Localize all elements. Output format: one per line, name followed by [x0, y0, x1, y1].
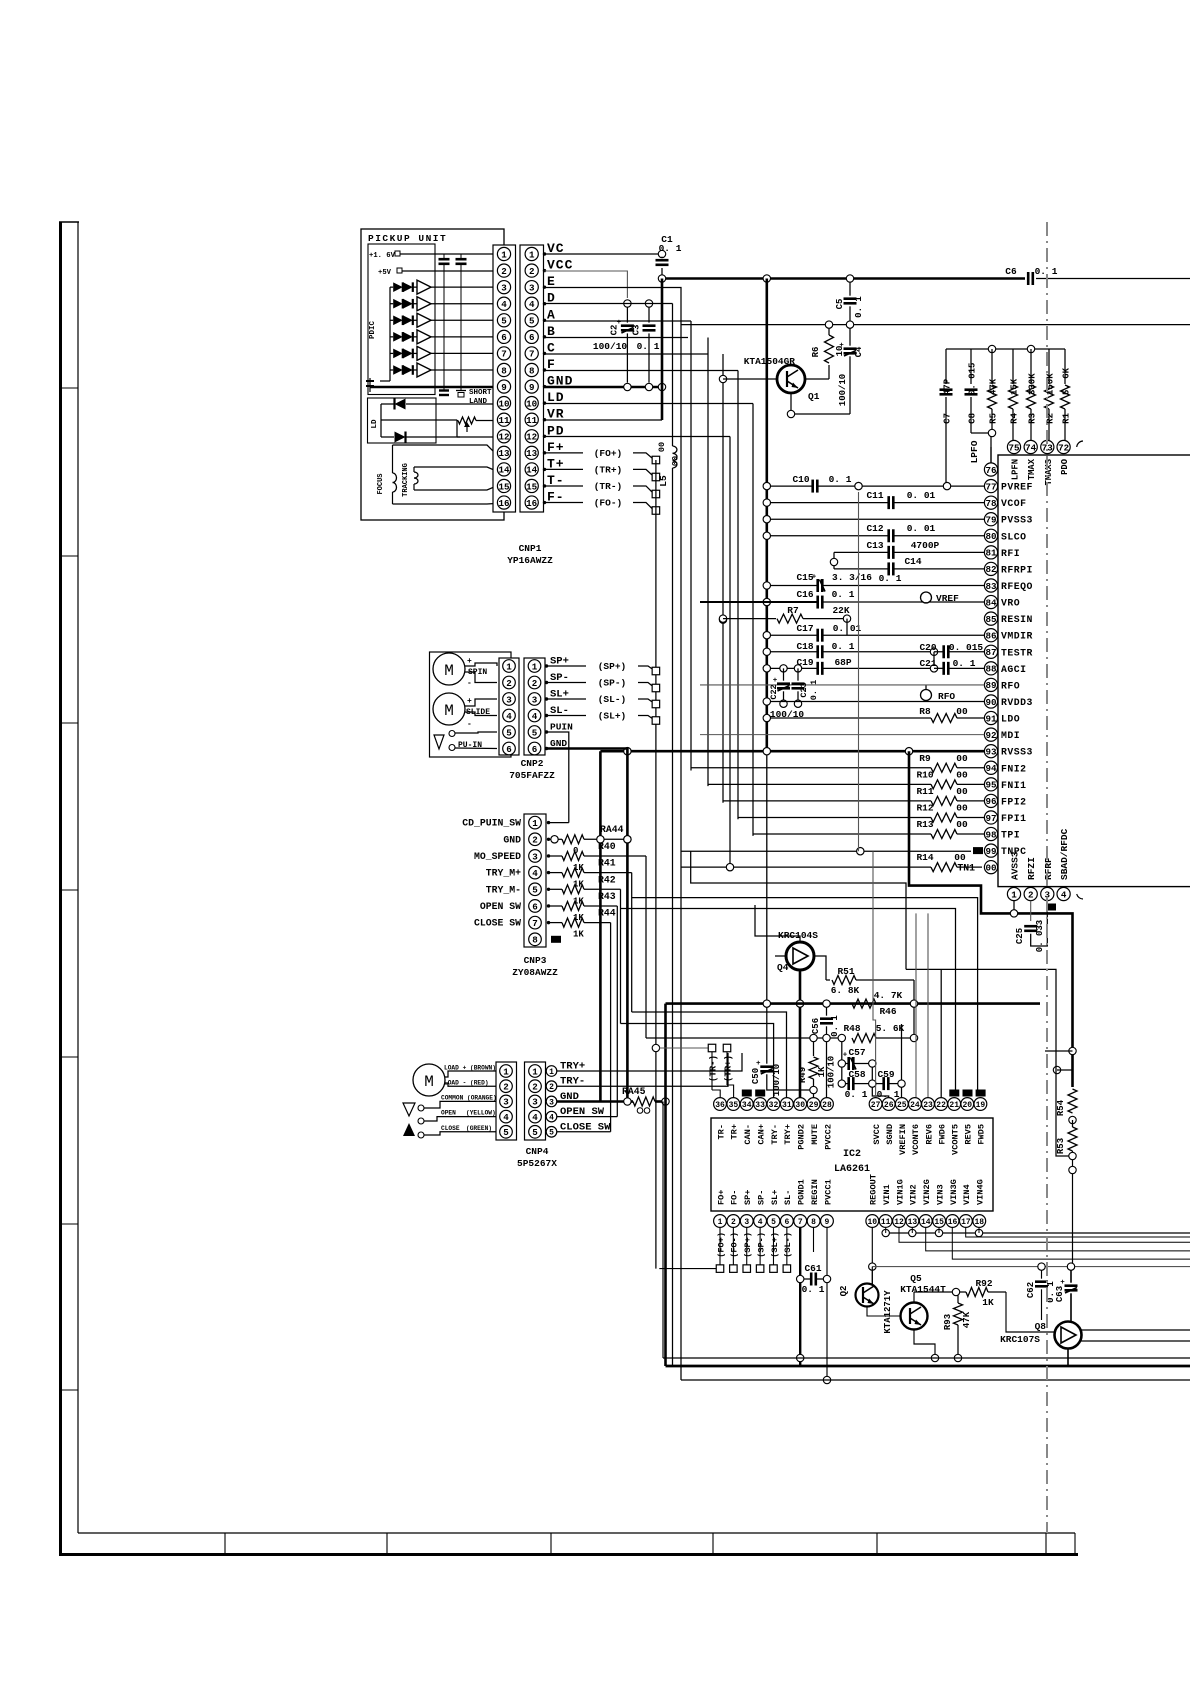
- svg-text:R1: R1: [1062, 412, 1072, 423]
- svg-text:98: 98: [985, 829, 997, 840]
- svg-text:+: +: [1060, 1279, 1065, 1287]
- svg-text:R49: R49: [798, 1067, 808, 1083]
- svg-text:LAND: LAND: [469, 398, 488, 406]
- resistor R14 row100: [681, 866, 931, 868]
- wire vin rail3: [926, 1228, 1190, 1251]
- wire TRY+ row: [557, 1053, 742, 1071]
- resistors R9-R13: [691, 767, 931, 769]
- SHORT LAND pads: [439, 389, 449, 391]
- svg-text:0. 1: 0. 1: [830, 1015, 840, 1037]
- svg-text:PVSS3: PVSS3: [1001, 515, 1033, 526]
- svg-text:3: 3: [532, 1097, 538, 1108]
- wire R92 to Q8: [1006, 1292, 1054, 1332]
- svg-text:7: 7: [529, 349, 535, 360]
- svg-text:0. 1: 0. 1: [845, 1089, 868, 1100]
- capacitor C7: [945, 349, 947, 384]
- svg-text:L5: L5: [658, 475, 669, 487]
- svg-text:RFO: RFO: [1001, 680, 1020, 691]
- photodiode array PDIC: [393, 282, 403, 292]
- svg-text:4: 4: [532, 1112, 538, 1123]
- bottom rail thin: [663, 1357, 1190, 1359]
- svg-text:FNI2: FNI2: [1001, 763, 1027, 774]
- svg-text:TPI: TPI: [1001, 830, 1020, 841]
- svg-text:FNI1: FNI1: [1001, 780, 1027, 791]
- svg-text:C11: C11: [866, 490, 883, 501]
- svg-text:(SL+): (SL+): [598, 711, 627, 722]
- svg-text:+: +: [773, 677, 778, 685]
- wire R40 to R48 row: [646, 1037, 810, 1039]
- svg-text:CNP2: CNP2: [521, 758, 544, 769]
- svg-text:R46: R46: [879, 1006, 896, 1017]
- svg-text:14: 14: [921, 1218, 931, 1227]
- svg-text:1: 1: [532, 818, 538, 829]
- svg-text:SGND: SGND: [885, 1124, 895, 1145]
- svg-text:11: 11: [498, 415, 510, 426]
- svg-text:TRY-: TRY-: [770, 1124, 780, 1145]
- svg-text:CLOSE: CLOSE: [441, 1125, 460, 1132]
- border frame left ruler: [59, 222, 62, 1556]
- svg-text:9: 9: [501, 382, 507, 393]
- wire Q1 base: [723, 378, 777, 380]
- IC1 top pins: [1007, 440, 1020, 453]
- svg-text:GND: GND: [503, 834, 521, 845]
- svg-text:6: 6: [501, 332, 507, 343]
- svg-text:5P5267X: 5P5267X: [517, 1158, 557, 1169]
- thick gnd staircase: [909, 751, 1073, 1087]
- svg-text:1: 1: [503, 1066, 509, 1077]
- svg-text:PVCC1: PVCC1: [823, 1179, 833, 1205]
- wire bundle B vertical: [707, 338, 709, 787]
- resistor R53: [1072, 1120, 1074, 1127]
- svg-text:FWD5: FWD5: [977, 1124, 987, 1145]
- svg-text:LA6261: LA6261: [834, 1164, 870, 1175]
- svg-text:13: 13: [526, 448, 538, 459]
- svg-text:4. 7K: 4. 7K: [874, 990, 903, 1001]
- svg-text:ZY08AWZZ: ZY08AWZZ: [512, 967, 558, 978]
- svg-text:97: 97: [985, 813, 996, 824]
- thick supply row: [666, 1002, 1041, 1005]
- RFO terminal: [921, 690, 932, 701]
- svg-text:13: 13: [908, 1218, 918, 1227]
- resistor R8 row91: [763, 714, 770, 721]
- wire q5 collector: [913, 1292, 915, 1303]
- svg-text:+: +: [467, 697, 472, 706]
- svg-text:SL-: SL-: [783, 1190, 793, 1205]
- svg-text:9: 9: [529, 382, 535, 393]
- wire bias row: [825, 321, 832, 328]
- svg-text:+: +: [756, 1060, 761, 1068]
- capacitor C19 row88: [763, 665, 770, 672]
- border frame bottom ruler: [78, 1532, 1075, 1534]
- wire GND row: [545, 386, 663, 388]
- svg-text:5: 5: [503, 1127, 509, 1138]
- tracking coil: [413, 467, 415, 472]
- resistor R49: [813, 1041, 815, 1056]
- svg-text:8: 8: [501, 365, 507, 376]
- wire VR net: [545, 419, 663, 421]
- svg-text:+1. 6V: +1. 6V: [369, 252, 396, 260]
- svg-text:16: 16: [948, 1218, 958, 1227]
- svg-text:CD_PUIN_SW: CD_PUIN_SW: [462, 818, 521, 829]
- svg-text:79: 79: [985, 515, 996, 526]
- svg-text:TN1: TN1: [957, 863, 975, 874]
- svg-text:15: 15: [498, 481, 510, 492]
- svg-text:3: 3: [549, 1098, 554, 1107]
- svg-text:LPFO: LPFO: [969, 440, 980, 463]
- svg-text:3: 3: [506, 694, 512, 705]
- wire vin rail1: [886, 1232, 1190, 1234]
- svg-text:0. 1: 0. 1: [829, 474, 852, 485]
- svg-text:3: 3: [503, 1097, 509, 1108]
- svg-text:KTA1544T: KTA1544T: [900, 1284, 946, 1295]
- svg-text:C15: C15: [796, 572, 813, 583]
- svg-text:(GREEN): (GREEN): [466, 1125, 492, 1132]
- svg-text:1: 1: [532, 661, 538, 672]
- svg-text:85: 85: [985, 614, 997, 625]
- svg-text:TR+: TR+: [730, 1124, 740, 1139]
- wire bundle F vertical: [737, 371, 739, 820]
- svg-text:3: 3: [744, 1218, 749, 1227]
- svg-text:R5: R5: [989, 413, 999, 424]
- svg-text:0. 1: 0. 1: [832, 641, 855, 652]
- svg-text:23: 23: [923, 1101, 933, 1110]
- svg-text:94: 94: [985, 763, 997, 774]
- svg-text:PUIN: PUIN: [550, 722, 573, 733]
- wire VCC: [545, 271, 628, 298]
- svg-text:7: 7: [532, 918, 538, 929]
- svg-text:00: 00: [956, 819, 968, 830]
- svg-text:MUTE: MUTE: [810, 1124, 820, 1145]
- svg-text:5: 5: [532, 1127, 538, 1138]
- svg-text:REV5: REV5: [964, 1124, 974, 1145]
- svg-text:C17: C17: [796, 623, 813, 634]
- capacitor C15 row83: [763, 582, 770, 589]
- IC2 pin tags top: [742, 1090, 752, 1097]
- svg-text:C2: C2: [610, 325, 620, 336]
- svg-text:88: 88: [985, 664, 997, 675]
- svg-text:FO-: FO-: [730, 1190, 740, 1205]
- svg-text:(TR+): (TR+): [724, 1055, 734, 1082]
- svg-text:Q4: Q4: [777, 962, 789, 973]
- svg-text:5: 5: [506, 727, 512, 738]
- svg-text:R51: R51: [837, 966, 854, 977]
- wire LPFO: [971, 432, 989, 434]
- svg-text:68P: 68P: [834, 657, 851, 668]
- laser diode LD1: [395, 399, 406, 410]
- svg-text:C25: C25: [1015, 928, 1025, 944]
- svg-text:5. 6K: 5. 6K: [876, 1023, 905, 1034]
- svg-text:3: 3: [529, 282, 535, 293]
- wire net row99: [681, 850, 971, 852]
- svg-text:RESIN: RESIN: [1001, 614, 1033, 625]
- thick rvss3 left: [599, 751, 602, 1101]
- svg-text:6: 6: [529, 332, 535, 343]
- svg-text:18: 18: [974, 1218, 984, 1227]
- svg-text:R10: R10: [916, 769, 933, 780]
- wire q8 stubs: [1081, 1329, 1190, 1331]
- svg-text:C58: C58: [848, 1069, 865, 1080]
- resistor R7 row85: [719, 615, 726, 622]
- svg-text:YP16AWZZ: YP16AWZZ: [507, 555, 553, 566]
- svg-text:3: 3: [501, 282, 507, 293]
- resistor R92: [952, 1288, 959, 1295]
- wire net 908: [621, 909, 956, 1094]
- svg-text:9: 9: [825, 1218, 830, 1227]
- svg-text:(TR+): (TR+): [594, 464, 623, 475]
- svg-text:RFRP: RFRP: [1043, 857, 1054, 880]
- svg-text:R92: R92: [975, 1278, 992, 1289]
- wire net 897: [632, 898, 978, 1093]
- svg-text:8: 8: [529, 365, 535, 376]
- svg-text:EO: EO: [757, 1090, 764, 1097]
- svg-text:5: 5: [529, 316, 535, 327]
- svg-text:C18: C18: [796, 641, 813, 652]
- connector CNP1: [493, 245, 516, 512]
- svg-text:M: M: [444, 662, 454, 680]
- wire avss3 pin1: [1013, 901, 1015, 910]
- svg-text:28: 28: [822, 1101, 832, 1110]
- svg-text:4700P: 4700P: [911, 540, 940, 551]
- svg-text:0. 033: 0. 033: [1035, 920, 1045, 952]
- CNP3 pin8 tag: [551, 936, 561, 943]
- svg-text:1: 1: [506, 661, 512, 672]
- wire CLOSE SW row: [557, 1131, 611, 1133]
- capacitor C3: [645, 300, 652, 307]
- svg-text:TRY+: TRY+: [783, 1124, 793, 1145]
- pickup unit box: [361, 229, 504, 520]
- resistor R54: [1068, 1089, 1077, 1113]
- svg-text:7: 7: [798, 1218, 803, 1227]
- svg-text:CNP3: CNP3: [524, 955, 547, 966]
- svg-text:C57: C57: [848, 1047, 865, 1058]
- pickup gnd cap: [369, 378, 371, 392]
- svg-text:81: 81: [985, 548, 997, 559]
- wire CNP2 GND thick: [547, 749, 628, 1102]
- wire A net: [545, 320, 692, 322]
- svg-text:29: 29: [809, 1101, 819, 1110]
- svg-text:TESTR: TESTR: [1001, 647, 1033, 658]
- svg-text:C13: C13: [866, 540, 883, 551]
- svg-text:6: 6: [532, 901, 538, 912]
- svg-text:REV6: REV6: [924, 1124, 934, 1145]
- capacitor C6: [1027, 272, 1030, 285]
- svg-text:5: 5: [532, 727, 538, 738]
- svg-text:R48: R48: [843, 1023, 860, 1034]
- svg-text:VCC: VCC: [547, 258, 573, 273]
- svg-text:1: 1: [532, 1066, 538, 1077]
- svg-text:+: +: [843, 1052, 848, 1060]
- svg-text:30: 30: [795, 1101, 805, 1110]
- connector CNP4: [496, 1062, 517, 1140]
- svg-text:100/10: 100/10: [827, 1056, 837, 1088]
- svg-text:90: 90: [985, 697, 996, 708]
- svg-text:3. 3/16: 3. 3/16: [832, 572, 872, 583]
- transistor Q2: [856, 1284, 879, 1307]
- svg-text:EO: EO: [964, 1090, 971, 1097]
- svg-text:C12: C12: [866, 523, 883, 534]
- svg-text:C14: C14: [904, 556, 921, 567]
- wire row89 RFO: [700, 684, 926, 686]
- svg-text:00: 00: [956, 786, 968, 797]
- svg-text:R11: R11: [916, 786, 933, 797]
- svg-text:IC2: IC2: [843, 1149, 861, 1160]
- svg-text:VIN2G: VIN2G: [922, 1179, 932, 1205]
- svg-text:KRC107S: KRC107S: [1000, 1334, 1040, 1345]
- svg-text:CNP4: CNP4: [526, 1146, 549, 1157]
- svg-text:00: 00: [956, 802, 968, 813]
- svg-text:-: -: [467, 679, 472, 688]
- wire Q1 collector: [790, 393, 792, 411]
- IC2 body: [711, 1118, 993, 1211]
- svg-text:RFEQO: RFEQO: [1001, 581, 1033, 592]
- svg-text:VIN3: VIN3: [935, 1184, 945, 1205]
- wire grey rev6: [927, 913, 929, 1097]
- svg-text:76: 76: [985, 465, 996, 476]
- svg-text:6. 8K: 6. 8K: [831, 985, 860, 996]
- wire row79 PVSS3: [763, 516, 770, 523]
- svg-text:4: 4: [506, 711, 512, 722]
- svg-text:FWD6: FWD6: [937, 1124, 947, 1145]
- svg-text:31: 31: [782, 1101, 792, 1110]
- svg-text:C21: C21: [919, 658, 936, 669]
- svg-text:VREF: VREF: [936, 593, 959, 604]
- resistor R2: [1048, 349, 1050, 384]
- wire bundle PD vertical: [729, 437, 731, 868]
- svg-text:OPEN: OPEN: [441, 1110, 456, 1117]
- svg-text:5: 5: [549, 1129, 554, 1138]
- svg-text:PGND1: PGND1: [797, 1179, 807, 1205]
- wire PD net: [545, 436, 731, 438]
- svg-text:A: A: [547, 307, 556, 322]
- svg-text:CNP1: CNP1: [519, 543, 542, 554]
- svg-text:Q8: Q8: [1035, 1321, 1047, 1332]
- svg-text:12: 12: [894, 1218, 904, 1227]
- wire cable vertical: [655, 460, 657, 1269]
- wire bundle D vertical: [672, 304, 674, 447]
- svg-text:(FO+): (FO+): [716, 1232, 726, 1258]
- wire bundle LD vertical: [752, 404, 754, 836]
- svg-text:EO: EO: [951, 1090, 958, 1097]
- bottom rail thick: [666, 1365, 1190, 1368]
- svg-text:C62: C62: [1026, 1282, 1036, 1298]
- resistor R1: [1064, 349, 1066, 384]
- svg-text:(SL+): (SL+): [770, 1232, 780, 1258]
- LD box: [368, 398, 437, 443]
- svg-text:C4: C4: [854, 346, 864, 357]
- PDIC inner box: [368, 244, 435, 395]
- svg-text:7: 7: [501, 349, 507, 360]
- svg-text:0. 1: 0. 1: [879, 573, 902, 584]
- IC2 top pins: [714, 1098, 727, 1111]
- svg-text:C61: C61: [804, 1263, 821, 1274]
- svg-text:(FO-): (FO-): [730, 1232, 740, 1258]
- LD wires: [380, 404, 382, 437]
- wire grey vcont6: [915, 913, 917, 1097]
- svg-text:(SP+): (SP+): [743, 1232, 753, 1258]
- svg-text:12: 12: [498, 432, 509, 443]
- svg-text:SVCC: SVCC: [872, 1124, 882, 1145]
- capacitor C23: [794, 665, 801, 672]
- svg-text:(TR-): (TR-): [594, 481, 623, 492]
- svg-text:11: 11: [881, 1218, 891, 1227]
- svg-text:0. 1: 0. 1: [832, 589, 855, 600]
- wire q5 emitter: [914, 1330, 935, 1355]
- capacitor C18 row87: [763, 648, 770, 655]
- svg-text:100/10: 100/10: [772, 1064, 782, 1096]
- svg-text:TRY_M-: TRY_M-: [486, 884, 521, 895]
- svg-text:R6: R6: [811, 347, 821, 358]
- open close switch: [403, 1103, 415, 1116]
- load motor M3: [413, 1064, 445, 1096]
- svg-text:KTA1271Y: KTA1271Y: [883, 1290, 893, 1334]
- svg-text:100/10: 100/10: [593, 341, 628, 352]
- svg-text:34: 34: [742, 1101, 752, 1110]
- svg-text:VIN4G: VIN4G: [976, 1179, 986, 1205]
- wire pin25 vrefin: [901, 1024, 903, 1080]
- resistor R51: [826, 979, 830, 981]
- svg-text:C59: C59: [877, 1069, 894, 1080]
- svg-text:93: 93: [985, 747, 997, 758]
- capacitor C17 row86: [763, 632, 770, 639]
- svg-text:24: 24: [910, 1101, 920, 1110]
- svg-text:47K: 47K: [962, 1311, 972, 1328]
- wire row92 MDI: [700, 734, 984, 736]
- svg-text:2: 2: [731, 1218, 736, 1227]
- wire row93 RVSS3 thick: [600, 750, 984, 753]
- svg-text:1: 1: [529, 249, 535, 260]
- svg-text:VCOF: VCOF: [1001, 498, 1027, 509]
- capacitor C10 row77: [763, 482, 770, 489]
- capacitor C13 row81: [834, 551, 889, 553]
- svg-text:C7: C7: [943, 413, 953, 424]
- wire q2 q5 link: [867, 1307, 900, 1317]
- wire LD net: [545, 403, 754, 405]
- spindle motor M1: [433, 653, 465, 685]
- svg-text:(YELLOW): (YELLOW): [466, 1110, 496, 1117]
- svg-text:4: 4: [503, 1112, 509, 1123]
- capacitor C50: [763, 1000, 770, 1007]
- wire net 883: [691, 851, 906, 969]
- svg-text:CAN-: CAN-: [743, 1124, 753, 1145]
- svg-text:00: 00: [985, 862, 996, 873]
- wire C net: [545, 353, 709, 355]
- svg-text:FO+: FO+: [716, 1190, 726, 1205]
- svg-text:00: 00: [956, 769, 968, 780]
- svg-text:REGOUT: REGOUT: [869, 1174, 879, 1205]
- svg-text:78: 78: [985, 498, 997, 509]
- wire grey svcc: [873, 851, 876, 1097]
- svg-text:RA44: RA44: [600, 824, 624, 835]
- wire OPEN SW row: [557, 1116, 618, 1118]
- svg-text:5: 5: [501, 316, 507, 327]
- svg-text:C3: C3: [632, 325, 642, 336]
- svg-text:Q5: Q5: [910, 1273, 922, 1284]
- grey rail 1266: [872, 1266, 1190, 1268]
- svg-text:89: 89: [985, 680, 996, 691]
- svg-text:22K: 22K: [832, 605, 849, 616]
- resistor R93: [957, 1295, 959, 1303]
- svg-text:MO_SPEED: MO_SPEED: [474, 851, 521, 862]
- IC1 pin99 tag: [973, 847, 983, 854]
- svg-text:C56: C56: [811, 1018, 821, 1034]
- svg-text:R7: R7: [787, 605, 799, 616]
- svg-text:MDI: MDI: [1001, 730, 1020, 741]
- PU-IN switch: [434, 735, 444, 749]
- svg-text:3: 3: [532, 694, 538, 705]
- svg-text:19: 19: [976, 1101, 986, 1110]
- svg-text:86: 86: [985, 631, 996, 642]
- svg-text:PVREF: PVREF: [1001, 482, 1033, 493]
